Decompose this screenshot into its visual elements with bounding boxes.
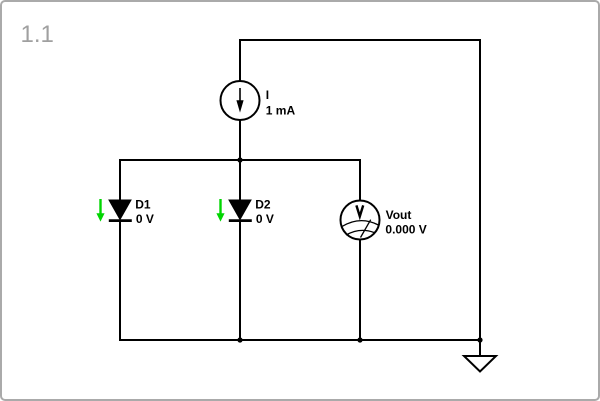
wire from top to current source (240,40)-(240,81) xyxy=(239,39,241,81)
wire middle horizontal (120,160)-(360,160) xyxy=(119,159,361,161)
wire mid drop (240,160)-(240,200) xyxy=(239,160,241,200)
wire D2 bottom (240,221)-(240,340) xyxy=(239,221,241,341)
svg-text:I: I xyxy=(266,88,269,102)
wire right side (480,40)-(480,356) xyxy=(479,39,481,356)
svg-text:1 mA: 1 mA xyxy=(266,104,296,118)
wire left drop (120,160)-(120,200) xyxy=(119,159,121,200)
current arrow D1 (green) xyxy=(96,199,104,222)
junction dot (480,340) xyxy=(477,337,482,342)
wire D1 bottom (120,221)-(120,340) xyxy=(119,221,121,341)
voltmeter Vout xyxy=(341,201,380,240)
wire voltmeter bottom (360,240)-(360,340) xyxy=(359,239,361,341)
wire current source to node (240,120)-(240,160) xyxy=(239,120,241,160)
ground xyxy=(464,356,496,372)
diode D2 xyxy=(229,200,252,221)
current source I xyxy=(221,81,260,120)
svg-text:Vout: Vout xyxy=(386,208,412,222)
svg-text:0.000 V: 0.000 V xyxy=(385,223,426,237)
current arrow D2 (green) xyxy=(216,199,224,222)
wire bottom horizontal (120,340)-(480,340) xyxy=(119,339,480,341)
node junction dot (240,160) xyxy=(237,157,242,162)
svg-text:0 V: 0 V xyxy=(136,212,154,226)
diode D1 xyxy=(109,200,132,221)
svg-text:1.1: 1.1 xyxy=(21,21,54,48)
svg-text:D2: D2 xyxy=(255,198,271,212)
junction dot (360,340) xyxy=(357,337,362,342)
junction dot (240,340) xyxy=(237,337,242,342)
svg-text:D1: D1 xyxy=(135,198,151,212)
svg-text:0 V: 0 V xyxy=(256,212,274,226)
wire right drop (360,160)-(360,201) xyxy=(359,159,361,201)
wire top horizontal (240,40)-(480,40) xyxy=(239,39,481,41)
